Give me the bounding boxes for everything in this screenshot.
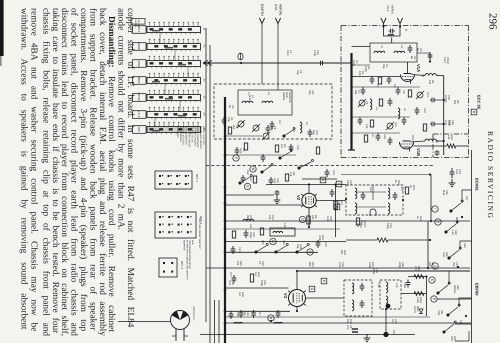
connector box A: [320, 177, 326, 183]
svg-text:15p: 15p: [382, 64, 385, 69]
coil L1 M.W. aerial: [242, 101, 253, 103]
capacitor C5: [235, 147, 240, 155]
svg-text:G: G: [310, 288, 314, 291]
wire to HT drop: [436, 75, 443, 77]
svg-text:OFF: OFF: [137, 127, 141, 133]
coil L2 fm rf: [374, 51, 385, 53]
wire AGC drop right lower: [427, 221, 429, 268]
fm bus junction y65: [350, 64, 352, 66]
bus junction y323: [224, 322, 227, 325]
capacitor C8: [266, 125, 271, 133]
svg-text:ECC 85: ECC 85: [477, 95, 482, 110]
capacitor C37 left: [232, 275, 237, 283]
coil L3 fm rf: [394, 51, 405, 53]
svg-text:C9: C9: [365, 101, 368, 105]
wire band switch line: [226, 251, 318, 253]
wire connector lead 4: [218, 300, 220, 343]
svg-text:C18: C18: [383, 134, 386, 139]
svg-text:I: I: [433, 209, 437, 210]
switch wafer bar S6: [147, 112, 201, 118]
svg-text:1M: 1M: [254, 272, 257, 276]
wire rf in: [352, 64, 371, 66]
junction V2 anode: [308, 183, 310, 185]
schematic right border line: [471, 150, 473, 343]
svg-text:M.W.: M.W.: [248, 95, 251, 101]
svg-text:AERIAL: AERIAL: [134, 20, 137, 29]
svg-text:25p: 25p: [308, 90, 311, 95]
bus junction y118: [224, 117, 227, 120]
wire ratio det to C50: [385, 309, 387, 335]
svg-text:0.01: 0.01: [239, 148, 242, 154]
wire fm cathode line: [352, 86, 421, 88]
bus junction y229: [224, 228, 227, 231]
svg-text:GRAM: GRAM: [453, 285, 456, 293]
bus junction y187: [224, 186, 227, 189]
capacitor C21: [325, 169, 330, 177]
wire ratio det top out: [408, 276, 427, 278]
trimmer C12: [387, 123, 393, 129]
svg-text:AERIAL: AERIAL: [391, 5, 394, 15]
switch bank label box V.H.F.: [133, 111, 147, 119]
wire AGC drop right: [430, 175, 432, 222]
switch contact S15: [296, 244, 309, 254]
trimmer C9: [359, 100, 365, 106]
switch bank label box LONG: [133, 60, 147, 68]
wire HT line: [226, 322, 471, 324]
wire V2 signal grid: [225, 204, 302, 206]
svg-text:remove 4BA nut and washer secu: remove 4BA nut and washer securing contr…: [29, 8, 39, 331]
wafer tie wires: [159, 33, 161, 44]
svg-text:G: G: [308, 251, 312, 254]
bus junction y334: [224, 333, 227, 336]
svg-text:V3: V3: [283, 293, 288, 299]
capacitor C20: [244, 230, 249, 238]
svg-text:270: 270: [414, 266, 417, 271]
ferrite rod assembly dashed outline: [214, 84, 332, 139]
svg-text:A.M.: A.M.: [274, 4, 278, 11]
switch contact S17: [450, 200, 463, 212]
switch bank label box GRAM: [133, 43, 147, 51]
switch contact S10: [279, 150, 292, 160]
svg-text:C50: C50: [392, 330, 395, 335]
fm bus junction y133: [350, 132, 352, 134]
capacitor C30: [430, 98, 436, 103]
resistor R9: [285, 174, 288, 181]
wire coil to drop: [436, 140, 443, 142]
svg-text:47k: 47k: [289, 172, 292, 177]
svg-text:STEREO P.U.: STEREO P.U.: [192, 306, 195, 321]
valve V2 ECH81 frequency changer: [302, 193, 316, 207]
bus junction y221: [224, 220, 227, 223]
svg-text:L10: L10: [283, 223, 286, 228]
wire bus to RF box: [352, 46, 371, 48]
svg-text:OPT 3: OPT 3: [180, 261, 184, 269]
svg-text:2M: 2M: [356, 223, 359, 227]
coil L13 choke: [274, 322, 282, 323]
svg-text:76p: 76p: [270, 126, 273, 131]
coil L2 L.W. aerial: [262, 101, 273, 103]
option plug OPT1: [155, 171, 192, 189]
wire V1B to R16: [414, 145, 447, 147]
svg-text:VHF: VHF: [437, 310, 440, 316]
corner wire bottom right: [455, 331, 469, 341]
node K: [429, 277, 435, 283]
wire V3 screen: [296, 271, 298, 290]
svg-text:C15: C15: [249, 176, 252, 181]
wire rf out: [417, 52, 430, 54]
svg-text:L18: L18: [377, 283, 380, 288]
capacitor C48: [406, 280, 411, 288]
svg-text:OA70: OA70: [413, 306, 416, 313]
capacitor C53: [229, 311, 234, 319]
svg-text:C14: C14: [426, 92, 429, 97]
svg-text:M: M: [251, 168, 255, 171]
valve V1B ECC85 mixer-oscillator: [400, 142, 414, 149]
svg-text:FOR TAPE SOCKET SEE TEXT: FOR TAPE SOCKET SEE TEXT: [198, 218, 201, 250]
capacitor C5 fm: [370, 76, 375, 84]
ground C19: [274, 196, 281, 204]
output section dash-dot top: [433, 133, 469, 135]
svg-text:S21: S21: [459, 320, 462, 325]
svg-text:C11: C11: [365, 124, 368, 129]
svg-text:0.1: 0.1: [391, 319, 394, 323]
svg-text:680: 680: [308, 262, 311, 267]
wire rf out drop: [429, 53, 431, 62]
wire node P to border: [437, 298, 471, 300]
svg-text:3k3: 3k3: [453, 100, 456, 105]
bus junction y268: [224, 267, 227, 270]
svg-text:10k: 10k: [236, 261, 239, 266]
ratio detector dashed can: [380, 280, 401, 309]
wire V3 grid: [226, 287, 289, 289]
switch ladder connecting wires: [462, 190, 472, 203]
resistor R7: [253, 176, 256, 183]
connector box to ECC85: [471, 109, 477, 115]
wire fm HT drop: [443, 76, 445, 156]
coil IFT1 primary b: [388, 188, 390, 199]
svg-text:S.W.: S.W.: [442, 252, 445, 258]
plug A.M. AERIAL: [275, 18, 280, 24]
switch bank label box MED.: [133, 77, 147, 85]
svg-text:3k9: 3k9: [340, 250, 343, 255]
svg-text:47u: 47u: [346, 325, 349, 330]
svg-text:S11: S11: [292, 128, 295, 133]
svg-text:L.W.: L.W.: [451, 230, 454, 235]
svg-text:1M: 1M: [280, 144, 283, 148]
aerial input arrows from switch: [203, 61, 212, 66]
ferrite rod coil box: [238, 90, 292, 115]
svg-text:1M: 1M: [238, 292, 241, 296]
capacitor C16: [269, 177, 274, 185]
capacitor C42: [393, 192, 398, 200]
coil IFT1 secondary a: [355, 203, 357, 214]
wire to stereo pick-up: [118, 321, 171, 323]
coil L12 choke: [234, 322, 242, 323]
svg-text:0.1: 0.1: [258, 261, 261, 265]
svg-text:V.H.F.: V.H.F.: [386, 5, 389, 12]
junction fm drop c: [443, 140, 445, 142]
FM tuner unit dash-dot outline: [341, 25, 469, 27]
svg-text:AERIAL: AERIAL: [282, 92, 285, 102]
wire V2 anode up: [308, 185, 310, 194]
IF transformer IFT2 dashed can: [344, 280, 372, 316]
capacitor C31: [430, 122, 436, 127]
svg-text:0.01: 0.01: [444, 120, 447, 126]
svg-text:300p: 300p: [249, 232, 252, 238]
connector box G: [309, 286, 315, 292]
svg-text:470p: 470p: [313, 50, 316, 56]
capacitor C18 fm: [376, 133, 381, 141]
svg-text:EBF89: EBF89: [475, 283, 480, 296]
fm bus junction y87: [350, 86, 352, 88]
bus junction y311: [224, 310, 227, 313]
svg-text:SHORT: SHORT: [137, 92, 141, 102]
capacitor C7: [261, 154, 266, 162]
FM bus foot: [348, 149, 355, 151]
svg-text:470k: 470k: [416, 297, 419, 303]
svg-text:DIAL: DIAL: [191, 240, 194, 246]
svg-text:100: 100: [358, 71, 361, 76]
svg-text:F: F: [234, 157, 238, 159]
capacitor C12: [308, 129, 313, 137]
svg-text:S19: S19: [463, 243, 466, 248]
capacitor C2 fm: [428, 52, 433, 60]
svg-text:100k: 100k: [368, 262, 371, 268]
stereo pick-up PU1: [171, 311, 190, 330]
svg-text:M.W.: M.W.: [442, 190, 445, 196]
wire V3 cathode line: [226, 310, 290, 312]
node H: [435, 219, 441, 225]
ground symbol: [364, 334, 371, 342]
fm bus junction y143: [350, 142, 352, 144]
svg-text:0.01: 0.01: [273, 178, 276, 184]
svg-text:TEST: TEST: [443, 57, 446, 64]
svg-text:0.01: 0.01: [455, 169, 458, 175]
resistor R16 fm: [447, 144, 456, 148]
trimmer C14 fm: [417, 92, 423, 98]
switch wafer bar S5: [147, 95, 201, 101]
capacitor C11: [358, 117, 363, 125]
wire IFT1 core link: [357, 191, 386, 193]
junction fm drop b: [443, 123, 445, 125]
wire IFT1 feed drop: [335, 185, 337, 238]
switch contact S19: [448, 247, 461, 259]
resistor R4 fm: [379, 99, 382, 106]
bus junction y252: [224, 251, 227, 254]
capacitor C10: [289, 144, 294, 152]
coil ratio det secondary: [386, 296, 388, 307]
junction AGC b: [427, 267, 429, 269]
svg-text:500p: 500p: [448, 120, 451, 126]
junction fm drop a: [443, 99, 445, 101]
wire osc line: [352, 116, 411, 118]
node I: [432, 206, 438, 212]
svg-text:S13: S13: [261, 240, 264, 245]
plug VHF aerial 2: [397, 18, 402, 24]
ground C34: [449, 179, 456, 187]
coil IFT1 secondary b: [388, 203, 390, 214]
svg-text:1000p: 1000p: [444, 95, 447, 103]
wire aerial bus: [203, 62, 351, 64]
svg-text:C10: C10: [296, 145, 299, 150]
FM earth bus (thick): [350, 53, 352, 150]
svg-text:0.01: 0.01: [228, 280, 231, 286]
coil L11: [243, 219, 254, 221]
capacitor C17: [330, 189, 335, 197]
capacitor C6 fm: [387, 76, 392, 84]
resistor R26 ratio: [414, 275, 424, 279]
svg-text:C48: C48: [403, 283, 406, 288]
resistor R10: [232, 231, 235, 238]
svg-text:25u: 25u: [452, 262, 455, 267]
svg-text:120p: 120p: [346, 180, 349, 186]
chassis dashed line: [206, 165, 434, 167]
wire tuning: [225, 135, 262, 137]
connector box H: [321, 278, 327, 284]
wire V3 anode to IFT2: [306, 297, 345, 299]
svg-text:220: 220: [311, 215, 314, 220]
wire IFT1 top feed: [341, 174, 430, 176]
svg-text:S14: S14: [282, 240, 285, 245]
fm bus junction y100: [350, 99, 352, 101]
svg-text:0.01: 0.01: [326, 216, 329, 222]
fm bus junction y117: [350, 116, 352, 118]
svg-text:10k: 10k: [447, 135, 450, 140]
wire earth lead: [261, 27, 263, 85]
svg-text:56k: 56k: [428, 262, 431, 267]
wire AVC return: [225, 241, 346, 243]
svg-text:OPT 1: OPT 1: [195, 174, 199, 182]
svg-text:POINT: POINT: [446, 57, 449, 65]
svg-text:50p: 50p: [296, 244, 299, 249]
trimmer C4: [253, 125, 259, 131]
svg-text:R17: R17: [258, 311, 261, 316]
svg-text:C24: C24: [238, 247, 241, 252]
AM earth bus (thick): [224, 97, 226, 343]
capacitor C19 fm: [388, 137, 393, 145]
capacitor C28: [276, 310, 281, 318]
wire V2 cathode down: [308, 208, 310, 228]
wire pick-up lead: [205, 28, 207, 322]
junction AGC a: [430, 220, 432, 222]
capacitor C32: [435, 150, 440, 156]
switch contact S8: [239, 175, 252, 185]
switch contact S21: [447, 304, 460, 316]
switch contact S9: [298, 160, 314, 170]
electrolytic C50 blob: [383, 332, 388, 337]
resistor R11: [260, 228, 263, 235]
svg-text:S17: S17: [465, 196, 468, 201]
option plug OPT3: [159, 258, 177, 277]
coil L5: [300, 122, 302, 133]
node J: [432, 263, 438, 269]
switch bank top label box: [131, 19, 145, 25]
svg-text:OFF: OFF: [450, 336, 453, 342]
svg-text:OSC: OSC: [411, 135, 414, 141]
capacitor C22: [316, 240, 321, 248]
wire balun to RF box: [391, 38, 393, 44]
fm bus junction y61.5: [350, 60, 352, 62]
svg-text:L17: L17: [400, 187, 403, 192]
svg-text:470k: 470k: [318, 235, 321, 241]
node C: [299, 216, 305, 222]
node N: [268, 315, 274, 321]
capacitor C7 fm: [361, 87, 366, 95]
node P: [431, 296, 437, 302]
wire pick-up lead 2: [209, 45, 211, 343]
capacitor C24: [231, 246, 236, 254]
wire V2 anode top: [302, 178, 337, 180]
wire R26 left: [346, 239, 377, 241]
aerial socket symbol: [238, 53, 243, 60]
wire ratio det right drop: [426, 277, 428, 317]
svg-text:AERIAL: AERIAL: [279, 4, 283, 16]
output section dash-dot left: [432, 134, 434, 158]
svg-text:76p: 76p: [296, 70, 299, 75]
wire IFT1 core link 2: [357, 206, 386, 208]
svg-text:GRAM: GRAM: [137, 42, 141, 51]
wire V1B anode out: [411, 141, 426, 142]
switch wafer bar S1: [147, 27, 201, 33]
wire IFT1 centre drop: [372, 185, 374, 200]
capacitor C3: [270, 121, 275, 129]
coil L6 anode choke: [425, 74, 436, 76]
switch wafer bar S3: [147, 61, 201, 67]
resistor R6: [316, 147, 319, 154]
wire R16 to border: [456, 145, 469, 147]
bus junction y155: [224, 154, 227, 157]
page spine shadow bar: [0, 0, 4, 56]
resistor R26: [377, 238, 388, 242]
resistor R2 fm: [378, 77, 381, 84]
svg-text:C37: C37: [229, 272, 232, 277]
connector box D: [334, 204, 340, 210]
coil ratio det primary: [386, 282, 388, 293]
wire V1A anode: [407, 62, 409, 74]
svg-text:S12: S12: [246, 170, 249, 175]
wire oscillator: [225, 154, 296, 156]
svg-text:180p: 180p: [372, 268, 375, 274]
svg-text:50p: 50p: [312, 130, 315, 135]
svg-text:0.04: 0.04: [338, 262, 341, 268]
capacitor C1 fm: [389, 29, 395, 34]
trimmer C2: [238, 121, 244, 127]
svg-text:C3: C3: [278, 120, 281, 124]
svg-text:C41: C41: [369, 187, 372, 192]
wave trap L10 box: [270, 228, 295, 236]
svg-text:L19: L19: [395, 283, 398, 288]
wire mixer line: [352, 132, 401, 134]
plug EARTH: [259, 18, 264, 24]
trimmer C6: [263, 133, 269, 139]
svg-text:C8: C8: [402, 90, 405, 94]
switch bank label box SHORT: [133, 94, 147, 102]
node G: [307, 249, 313, 255]
svg-text:200p: 200p: [398, 262, 401, 268]
diode MR2: [419, 309, 423, 314]
svg-text:TAKE POWER FROM DRIVE: TAKE POWER FROM DRIVE: [188, 240, 191, 269]
wire C30 to drop: [436, 99, 444, 101]
capacitor C46: [360, 300, 365, 308]
coil L4 osc: [370, 99, 372, 110]
valve V1A ECC85 RF amplifier: [401, 75, 415, 82]
wire V2 osc anode to IFT1: [266, 184, 346, 186]
switch contact S11: [283, 128, 295, 138]
resistor R6 fm: [423, 124, 426, 131]
svg-text:V1B: V1B: [416, 148, 421, 156]
junction test point: [429, 60, 431, 62]
wire V3 cathode: [296, 307, 298, 312]
